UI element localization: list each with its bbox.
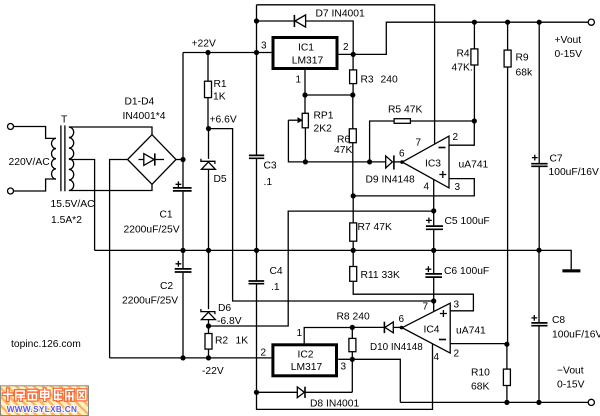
svg-text:R1: R1 — [214, 79, 227, 90]
wire secondary center tap to ground rail — [69, 160, 95, 251]
resistor R7 — [352, 196, 354, 251]
svg-text:1: 1 — [296, 75, 302, 86]
svg-text:IN4001*4: IN4001*4 — [123, 111, 166, 122]
svg-text:2: 2 — [454, 349, 460, 360]
wire bridge right corner — [176, 159, 183, 161]
svg-text:T: T — [61, 115, 68, 126]
svg-text:15.5V/AC: 15.5V/AC — [51, 199, 96, 210]
wire bridge left corner to -22V — [110, 160, 128, 358]
wire +V riser x183 — [182, 53, 184, 188]
svg-text:68K: 68K — [471, 382, 489, 393]
capacitor C5 — [426, 211, 434, 226]
resistor R9 — [507, 22, 509, 344]
resistor R1 — [207, 53, 209, 129]
wire top rail to IC3 pin7 — [257, 5, 435, 144]
svg-text:D1-D4: D1-D4 — [125, 97, 155, 108]
svg-text:3: 3 — [261, 41, 267, 52]
transformer T core — [61, 125, 65, 191]
svg-text:2: 2 — [261, 348, 267, 359]
capacitor C2 — [175, 269, 192, 272]
resistor R6 — [352, 95, 354, 196]
svg-text:2: 2 — [343, 42, 349, 53]
svg-text:240: 240 — [381, 75, 398, 86]
svg-text:R2: R2 — [215, 336, 228, 347]
svg-text:+Vout: +Vout — [555, 35, 582, 46]
svg-text:1K: 1K — [236, 336, 249, 347]
svg-text:R11 33K: R11 33K — [361, 270, 400, 281]
resistor R2 — [208, 326, 210, 358]
svg-text:−Vout: −Vout — [557, 366, 584, 377]
wire secondary bottom to bridge bottom — [69, 184, 152, 191]
bridge rectifier D1-D4 diamond — [128, 135, 176, 185]
svg-text:C8: C8 — [552, 315, 565, 326]
svg-text:topinc.126.com: topinc.126.com — [11, 339, 81, 350]
svg-text:0-15V: 0-15V — [555, 49, 583, 60]
svg-text:2200uF/25V: 2200uF/25V — [122, 296, 178, 307]
svg-text:4: 4 — [424, 182, 430, 193]
capacitor C1 — [173, 188, 192, 191]
svg-text:R4: R4 — [457, 49, 470, 60]
transformer T primary winding — [51, 138, 56, 179]
wire IC4 pin2 — [450, 343, 507, 345]
svg-text:68k: 68k — [516, 68, 533, 79]
svg-text:4: 4 — [434, 352, 440, 363]
capacitor C4 — [249, 281, 265, 284]
svg-text:2: 2 — [453, 132, 459, 143]
wire IC3 pin4 — [433, 180, 435, 211]
wire adjust node line y162 — [305, 161, 385, 163]
terminal +Vout — [588, 19, 594, 25]
svg-text:3: 3 — [341, 362, 347, 373]
resistor R5 — [370, 121, 475, 162]
svg-text:IC3: IC3 — [425, 159, 441, 170]
capacitor C8 — [531, 250, 539, 322]
resistor R10 — [506, 344, 508, 402]
svg-text:2K2: 2K2 — [314, 124, 333, 135]
svg-text:R6: R6 — [337, 135, 350, 146]
svg-text:R8 240: R8 240 — [337, 312, 370, 323]
wire primary bottom lead — [14, 179, 57, 191]
svg-text:6: 6 — [399, 149, 405, 160]
diode D9 — [386, 156, 393, 168]
svg-text:R3: R3 — [361, 75, 374, 86]
capacitor C7 — [532, 22, 539, 163]
svg-text:LM317: LM317 — [291, 362, 323, 373]
svg-text:RP1: RP1 — [314, 111, 334, 122]
svg-text:R9: R9 — [516, 53, 529, 64]
svg-text:.1: .1 — [271, 282, 280, 293]
svg-text:R10: R10 — [471, 368, 490, 379]
op-amp IC4 — [402, 303, 450, 353]
capacitor C3 — [249, 155, 264, 158]
svg-text:7: 7 — [423, 302, 429, 313]
svg-text:IC1: IC1 — [298, 43, 314, 54]
wire -Vout rail — [400, 401, 588, 403]
wire secondary top to bridge top — [69, 127, 152, 135]
watermark chinese characters — [4, 389, 86, 400]
svg-text:7: 7 — [416, 138, 422, 149]
wire IC1 output to +Vout rail — [339, 22, 589, 54]
svg-text:D10 IN4148: D10 IN4148 — [370, 342, 423, 353]
svg-text:1: 1 — [297, 328, 303, 339]
svg-text:1K: 1K — [213, 92, 226, 103]
wire +6.6V branch to C6 bottom — [209, 129, 434, 301]
diode D10 — [352, 326, 384, 328]
svg-text:C7: C7 — [550, 154, 563, 165]
wire IC4 pin7 — [433, 301, 435, 312]
terminal -Vout — [588, 399, 594, 405]
zener diode D6 — [208, 250, 210, 309]
svg-text:3: 3 — [454, 300, 460, 311]
svg-text:6: 6 — [399, 314, 405, 325]
svg-text:3: 3 — [455, 182, 461, 193]
svg-text:0-15V: 0-15V — [557, 380, 585, 391]
svg-text:uA741: uA741 — [456, 326, 486, 337]
capacitor C6 — [426, 250, 434, 273]
wire riser x256 C3 C4 chain — [256, 5, 258, 155]
svg-text:IC2: IC2 — [297, 350, 313, 361]
resistor R3 — [352, 54, 354, 95]
svg-text:R5 47K: R5 47K — [388, 105, 422, 116]
ground symbol — [562, 269, 580, 272]
svg-text:C4: C4 — [270, 266, 283, 277]
svg-text:D5: D5 — [214, 174, 227, 185]
svg-text:100uF/16V: 100uF/16V — [552, 330, 600, 341]
svg-text:-22V: -22V — [202, 366, 224, 377]
wire IC2 pin1 riser — [304, 328, 352, 344]
svg-text:D8 IN4001: D8 IN4001 — [310, 399, 360, 410]
wire -6.8V branch to IC3 pin4 — [209, 211, 434, 326]
svg-text:D6: D6 — [218, 303, 231, 314]
terminal AC input bottom — [8, 188, 14, 194]
op-amp IC3 — [402, 136, 449, 188]
svg-text:+22V: +22V — [192, 38, 216, 49]
wire IC1 pin1 — [305, 70, 353, 113]
svg-text:uA741: uA741 — [459, 160, 489, 171]
svg-text:220V/AC: 220V/AC — [9, 157, 51, 168]
wire IC2 pin3 to -Vout rail — [338, 359, 400, 402]
potentiometer RP1 — [302, 113, 308, 128]
transformer T secondary winding — [69, 127, 74, 190]
svg-text:WWW.SYLXB.CN: WWW.SYLXB.CN — [7, 405, 78, 414]
wire -22V rail — [110, 357, 272, 359]
diode D8 — [257, 391, 298, 393]
svg-text:IC4: IC4 — [423, 325, 439, 336]
terminal AC input top — [8, 124, 14, 130]
svg-text:1.5A*2: 1.5A*2 — [51, 215, 82, 226]
svg-text:D9 IN4148: D9 IN4148 — [366, 175, 416, 186]
svg-text:C2: C2 — [160, 281, 173, 292]
ground rail — [95, 250, 572, 269]
wire +22V line — [183, 52, 271, 54]
svg-text:C1: C1 — [160, 210, 173, 221]
svg-text:C6 100uF: C6 100uF — [444, 266, 489, 277]
svg-text:R7 47K: R7 47K — [358, 222, 392, 233]
resistor R11 — [353, 250, 473, 310]
watermark box — [1, 386, 89, 416]
zener diode D5 — [208, 129, 210, 159]
resistor R4 — [473, 22, 475, 121]
svg-text:+6.6V: +6.6V — [210, 114, 237, 125]
wire IC3 pin2 — [449, 121, 474, 145]
bridge rectifier inner diode — [139, 159, 165, 161]
svg-text:47K: 47K — [334, 145, 352, 156]
svg-text:C3: C3 — [264, 161, 277, 172]
svg-text:47K.: 47K. — [452, 63, 473, 74]
svg-text:100uF/16V: 100uF/16V — [549, 167, 600, 178]
wire IC3 pin3 — [353, 179, 474, 196]
wire D8 riser — [351, 359, 353, 392]
svg-text:D7 IN4001: D7 IN4001 — [316, 9, 366, 20]
resistor R8 — [351, 327, 353, 359]
op-amp regulator IC1 — [273, 38, 337, 69]
regulator IC2 — [273, 345, 337, 376]
svg-text:.1: .1 — [264, 177, 273, 188]
svg-text:2200uF/25V: 2200uF/25V — [124, 225, 180, 236]
wire primary top lead — [14, 127, 57, 139]
svg-text:C5 100uF: C5 100uF — [445, 216, 490, 227]
svg-text:LM317: LM317 — [292, 56, 324, 67]
diode D7 — [257, 20, 294, 22]
